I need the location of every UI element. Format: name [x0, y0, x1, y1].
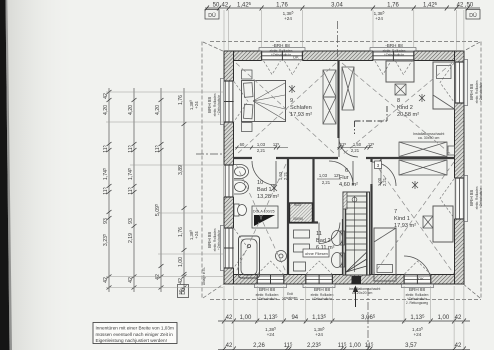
- svg-text:7: 7: [394, 209, 397, 215]
- svg-text:2,21: 2,21: [382, 177, 387, 186]
- svg-text:+Zeitschaltuhr: +Zeitschaltuhr: [479, 81, 483, 102]
- svg-text:+Zeitschaltuhr: +Zeitschaltuhr: [217, 229, 221, 250]
- svg-text:Schlafen: Schlafen: [290, 105, 312, 111]
- svg-text:1,76: 1,76: [178, 227, 184, 237]
- svg-text:müssen eventuell nach einiger: müssen eventuell nach einiger Zeit in: [96, 332, 174, 337]
- svg-text:Kind 1: Kind 1: [394, 216, 410, 222]
- svg-text:42: 42: [128, 277, 134, 283]
- svg-text:9/15: 9/15: [294, 203, 301, 207]
- svg-text:/50/90: /50/90: [293, 217, 303, 221]
- svg-text:+24: +24: [284, 16, 292, 21]
- svg-text:1,03: 1,03: [319, 173, 328, 178]
- svg-text:+24: +24: [414, 332, 422, 337]
- svg-text:42: 42: [103, 93, 109, 99]
- svg-text:17,93 m²: 17,93 m²: [394, 223, 416, 229]
- svg-text:BRH 88: BRH 88: [207, 97, 212, 114]
- svg-text:DK: DK: [293, 55, 299, 60]
- svg-text:+Zeitschaltuhr: +Zeitschaltuhr: [312, 297, 333, 301]
- svg-text:11: 11: [316, 231, 322, 237]
- svg-text:1,50: 1,50: [353, 142, 362, 147]
- svg-text:+Zeitschaltuhr: +Zeitschaltuhr: [257, 297, 278, 301]
- svg-text:DOLA 100/25: DOLA 100/25: [253, 210, 275, 214]
- svg-text:2,21: 2,21: [283, 171, 288, 180]
- svg-text:1,76: 1,76: [178, 95, 184, 105]
- svg-text:42: 42: [226, 315, 233, 321]
- svg-text:DK: DK: [418, 276, 424, 281]
- svg-text:1,00: 1,00: [349, 343, 361, 349]
- svg-text:DÜ: DÜ: [469, 12, 477, 19]
- svg-text:Kind 2: Kind 2: [397, 105, 413, 111]
- svg-text:BRH 88: BRH 88: [469, 190, 474, 207]
- svg-text:2,26: 2,26: [253, 343, 265, 349]
- svg-text:42: 42: [226, 343, 233, 349]
- svg-text:Eigenleistung nachjustiert wer: Eigenleistung nachjustiert werden!: [96, 338, 167, 343]
- svg-text:9: 9: [290, 98, 293, 104]
- svg-text:1,00: 1,00: [240, 315, 252, 321]
- svg-text:3,57: 3,57: [405, 343, 417, 349]
- svg-text:42: 42: [455, 343, 462, 349]
- svg-text:BRH 88: BRH 88: [409, 287, 426, 292]
- svg-text:+24: +24: [194, 101, 199, 109]
- svg-text:Bad 1: Bad 1: [257, 187, 272, 193]
- svg-text:BRH 88: BRH 88: [314, 287, 331, 292]
- svg-text:+Zeitschaltuhr: +Zeitschaltuhr: [217, 94, 221, 115]
- svg-text:DÜ: DÜ: [208, 12, 216, 19]
- svg-text:2,21: 2,21: [257, 148, 266, 153]
- svg-text:42: 42: [455, 315, 462, 321]
- svg-text:ohne Fliesen: ohne Fliesen: [305, 251, 328, 256]
- svg-text:10: 10: [257, 180, 263, 186]
- svg-text:Bad 2: Bad 2: [316, 238, 331, 244]
- svg-text:42: 42: [457, 2, 464, 8]
- svg-text:,50: ,50: [465, 2, 474, 8]
- svg-text:42: 42: [103, 277, 109, 283]
- svg-text:4,20: 4,20: [128, 105, 134, 115]
- svg-text:2,21: 2,21: [351, 148, 360, 153]
- svg-text:-BRH 88: -BRH 88: [272, 43, 290, 48]
- svg-text:BRH 88: BRH 88: [469, 84, 474, 101]
- svg-text:+24: +24: [375, 16, 383, 21]
- svg-text:+Zeitschaltuhr: +Zeitschaltuhr: [271, 53, 292, 57]
- svg-text:Ablage in EL: Ablage in EL: [202, 267, 206, 285]
- svg-text:+24: +24: [194, 231, 199, 239]
- svg-text:verzahnen: verzahnen: [283, 296, 298, 300]
- svg-text:93: 93: [103, 218, 109, 224]
- svg-text:2,21: 2,21: [322, 180, 331, 185]
- svg-text:13,28 m²: 13,28 m²: [257, 194, 279, 200]
- svg-text:+Zeitschaltuhr: +Zeitschaltuhr: [479, 187, 483, 208]
- svg-text:8: 8: [397, 98, 400, 104]
- svg-text:6: 6: [345, 168, 348, 174]
- svg-text:93: 93: [128, 218, 134, 224]
- svg-text:1,00: 1,00: [438, 315, 450, 321]
- svg-text:1,03: 1,03: [257, 142, 266, 147]
- svg-text:1,00: 1,00: [178, 257, 184, 267]
- svg-text:4,60 m²: 4,60 m²: [339, 182, 358, 188]
- svg-text:4,20: 4,20: [103, 105, 109, 115]
- svg-text:ca. 30x50 cm: ca. 30x50 cm: [418, 136, 439, 140]
- svg-text:Flur: Flur: [339, 175, 349, 181]
- svg-text:1,76: 1,76: [276, 2, 288, 8]
- svg-text:2. Rettungsweg: 2. Rettungsweg: [406, 301, 428, 305]
- svg-text:DÜ: DÜ: [180, 287, 187, 295]
- svg-text:Innentüren mit einer Breite vo: Innentüren mit einer Breite von 1,03m: [96, 326, 175, 331]
- svg-text:3,89: 3,89: [178, 165, 184, 175]
- svg-text:,42: ,42: [220, 2, 229, 8]
- svg-text:2,19: 2,19: [128, 233, 134, 243]
- svg-text:+24: +24: [267, 332, 275, 337]
- svg-text:3,04: 3,04: [331, 2, 343, 8]
- svg-text:+Zeitschaltuhr: +Zeitschaltuhr: [384, 53, 405, 57]
- svg-text:20,58 m²: 20,58 m²: [397, 112, 419, 118]
- svg-text:+24: +24: [315, 332, 323, 337]
- svg-text:42: 42: [178, 278, 184, 284]
- svg-text:1,76: 1,76: [387, 2, 399, 8]
- svg-text:BRH 88: BRH 88: [207, 232, 212, 249]
- svg-text:42: 42: [155, 274, 161, 280]
- svg-text:-BRH 88: -BRH 88: [385, 43, 403, 48]
- svg-text:4,20: 4,20: [155, 105, 161, 115]
- svg-text:94: 94: [291, 315, 298, 321]
- svg-text:60: 60: [240, 142, 245, 147]
- svg-text:BRH 88: BRH 88: [259, 287, 276, 292]
- svg-text:17,93 m²: 17,93 m²: [290, 112, 312, 118]
